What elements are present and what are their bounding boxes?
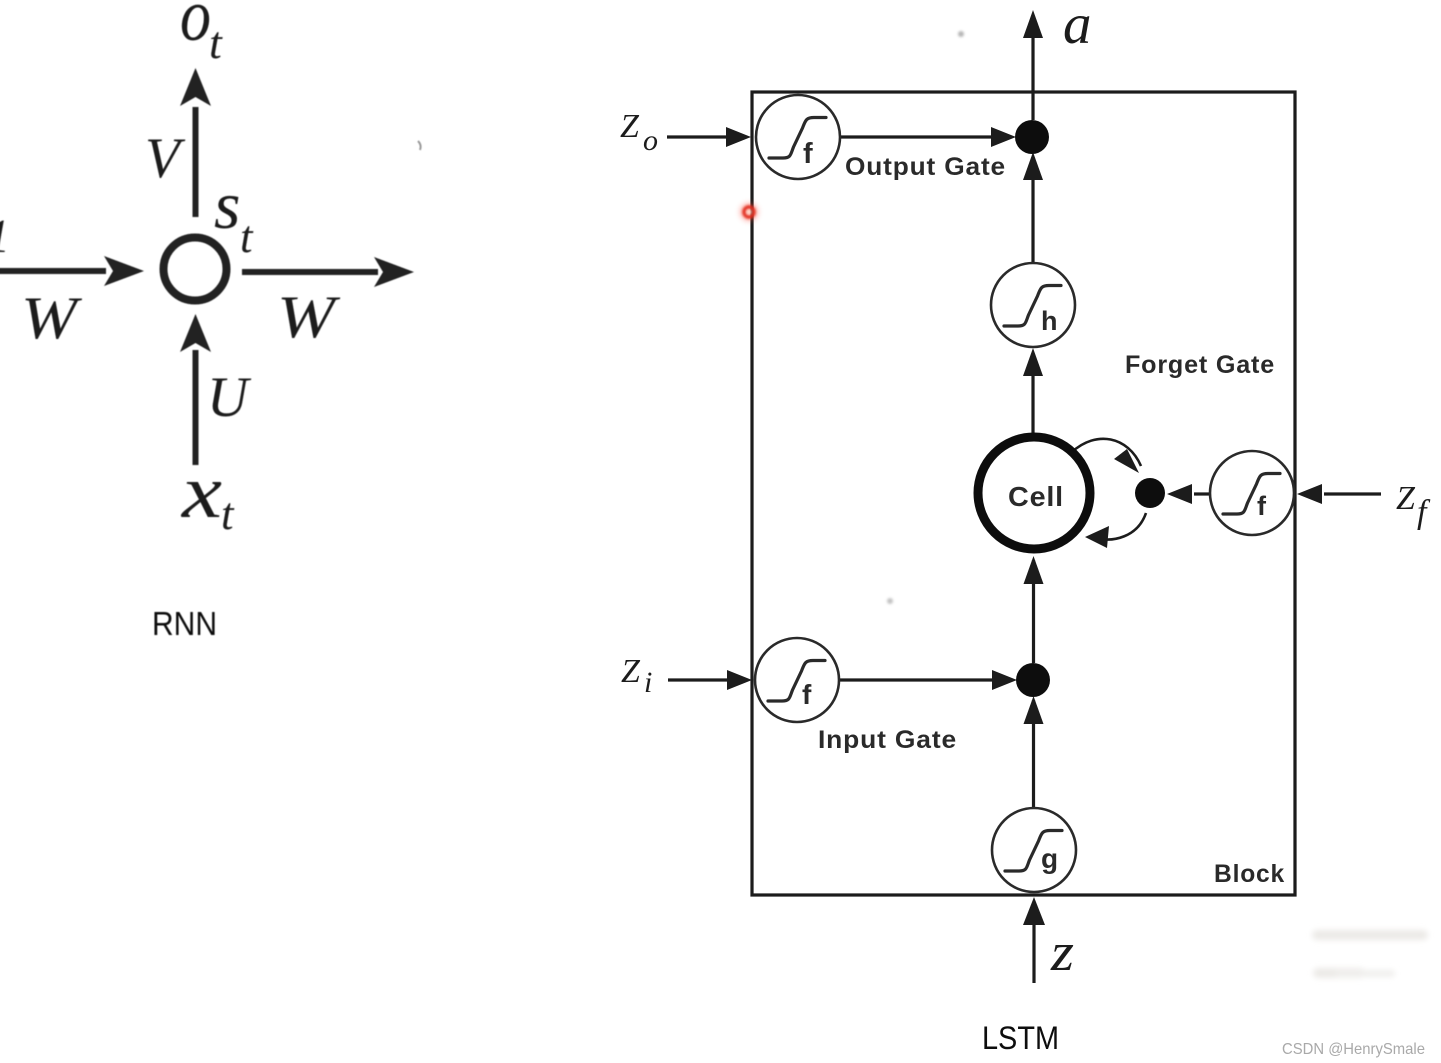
svg-text:LSTM: LSTM <box>982 1020 1059 1056</box>
svg-text:1: 1 <box>0 210 10 263</box>
svg-text:Block: Block <box>1214 860 1285 888</box>
svg-text:o: o <box>643 124 658 157</box>
svg-text:x: x <box>181 450 223 534</box>
svg-text:RNN: RNN <box>152 605 217 642</box>
svg-text:t: t <box>221 489 235 539</box>
svg-text:f: f <box>1257 491 1267 521</box>
svg-text:CSDN @HenrySmale: CSDN @HenrySmale <box>1282 1041 1425 1058</box>
svg-text:W: W <box>277 284 341 350</box>
svg-text:g: g <box>1041 843 1059 874</box>
svg-text:t: t <box>240 212 254 262</box>
svg-text:Z: Z <box>621 653 641 690</box>
svg-text:Forget Gate: Forget Gate <box>1125 351 1275 379</box>
svg-text:Z: Z <box>620 108 640 145</box>
svg-text:Z: Z <box>1396 480 1416 517</box>
svg-text:f: f <box>802 679 812 710</box>
svg-text:s: s <box>214 167 240 243</box>
svg-text:Cell: Cell <box>1008 481 1064 512</box>
svg-text:Output Gate: Output Gate <box>845 153 1006 181</box>
svg-text:o: o <box>180 0 211 57</box>
svg-text:h: h <box>1041 306 1058 336</box>
svg-text:i: i <box>644 666 652 699</box>
svg-text:z: z <box>1050 922 1074 982</box>
svg-text:t: t <box>209 17 223 68</box>
svg-text:W: W <box>21 285 83 351</box>
svg-text:U: U <box>207 366 252 429</box>
svg-text:a: a <box>1063 0 1092 56</box>
svg-text:Input Gate: Input Gate <box>818 726 957 754</box>
svg-text:f: f <box>803 138 813 170</box>
